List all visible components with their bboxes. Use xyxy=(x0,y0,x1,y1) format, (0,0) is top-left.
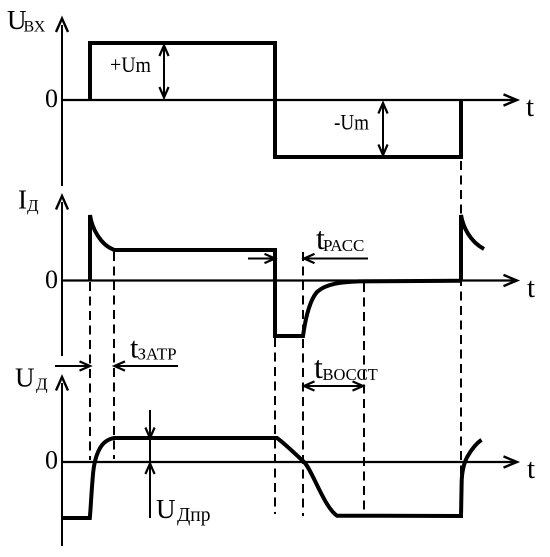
label U_BX xyxy=(7,5,46,36)
svg-text:0: 0 xyxy=(45,446,58,475)
svg-text:0: 0 xyxy=(45,265,58,294)
dashed line x=364 xyxy=(363,283,365,515)
svg-text:ЗАТР: ЗАТР xyxy=(138,345,177,364)
plot1 y-axis (Uvx axis) xyxy=(56,19,68,187)
svg-text:t: t xyxy=(526,91,534,123)
U_Dpr lower arrow xyxy=(145,464,154,475)
U_Dpr upper arrow xyxy=(145,410,154,518)
dashed line x=461 xyxy=(460,161,462,514)
svg-text:U: U xyxy=(156,494,176,524)
svg-text:Дпр: Дпр xyxy=(177,505,211,526)
label I_D xyxy=(18,185,39,216)
label t_ZATR xyxy=(130,332,177,365)
diode current waveform Id xyxy=(90,215,461,336)
plot2 y-axis (Id axis) xyxy=(56,196,68,356)
svg-text:ВОССТ: ВОССТ xyxy=(323,365,378,384)
+Um measure arrow xyxy=(159,46,168,98)
svg-text:-Um: -Um xyxy=(334,110,369,135)
plot3 y-axis (Ud axis) xyxy=(56,377,68,546)
dashed line x=90 xyxy=(89,282,91,460)
svg-text:ВХ: ВХ xyxy=(24,19,46,36)
t_ZATR right arrow xyxy=(115,361,179,370)
plot1 x-axis (t axis) xyxy=(61,94,517,105)
label U_D xyxy=(15,363,48,394)
t_VOSST double arrow xyxy=(304,381,363,390)
dashed line x=275 xyxy=(274,338,276,514)
svg-text:U: U xyxy=(15,363,35,393)
svg-text:Д: Д xyxy=(27,196,39,215)
diode voltage waveform Ud xyxy=(62,438,482,518)
plot2 x-axis (t axis) xyxy=(61,275,517,286)
dashed line x=303 xyxy=(302,252,304,516)
t_RASS left arrow xyxy=(248,254,275,263)
svg-text:t: t xyxy=(527,272,535,304)
label U_Dpr xyxy=(156,494,211,526)
Id recovery spike at x=461 xyxy=(461,215,484,281)
label t_VOSST xyxy=(314,349,378,385)
t_ZATR left arrow xyxy=(55,361,90,370)
svg-text:Д: Д xyxy=(36,375,48,394)
input square wave Uvx xyxy=(90,43,461,157)
t_RASS right arrow xyxy=(304,254,368,263)
svg-text:t: t xyxy=(527,453,535,485)
svg-text:+Um: +Um xyxy=(110,52,151,77)
svg-text:I: I xyxy=(18,185,27,215)
label t_RASS xyxy=(316,220,364,256)
plot3 x-axis (t axis) xyxy=(61,456,517,467)
svg-text:0: 0 xyxy=(45,84,58,113)
-Um measure arrow xyxy=(378,103,387,155)
dashed line x=114 xyxy=(113,252,115,459)
svg-text:РАСС: РАСС xyxy=(323,236,364,255)
